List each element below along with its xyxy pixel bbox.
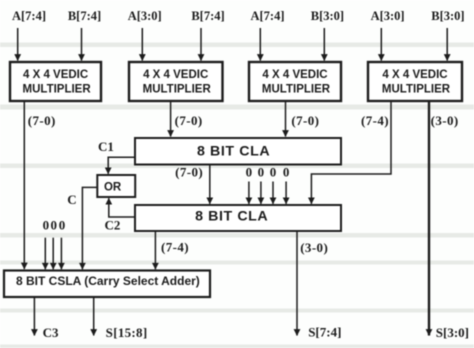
svg-text:S[15:8]: S[15:8] xyxy=(106,325,148,340)
svg-text:4 X 4 VEDIC: 4 X 4 VEDIC xyxy=(143,69,208,81)
svg-text:4 X 4 VEDIC: 4 X 4 VEDIC xyxy=(23,69,88,81)
svg-text:(3-0): (3-0) xyxy=(431,113,459,128)
svg-text:B[7:4]: B[7:4] xyxy=(68,9,101,23)
svg-text:A[3:0]: A[3:0] xyxy=(128,9,162,23)
svg-text:8 BIT CSLA (Carry Select Adder: 8 BIT CSLA (Carry Select Adder) xyxy=(16,274,200,288)
svg-text:0: 0 xyxy=(246,164,253,179)
svg-text:A[7:4]: A[7:4] xyxy=(250,9,284,23)
svg-text:0: 0 xyxy=(258,164,265,179)
svg-text:0: 0 xyxy=(59,218,66,233)
svg-text:C3: C3 xyxy=(43,325,59,340)
svg-text:C1: C1 xyxy=(98,139,114,154)
svg-text:(7-0): (7-0) xyxy=(28,113,56,128)
svg-text:(7-0): (7-0) xyxy=(291,113,319,128)
svg-text:0: 0 xyxy=(43,218,50,233)
svg-text:0: 0 xyxy=(283,164,290,179)
svg-text:(7-4): (7-4) xyxy=(361,113,389,128)
svg-text:0: 0 xyxy=(270,164,277,179)
svg-text:A[7:4]: A[7:4] xyxy=(12,9,46,23)
svg-text:8 BIT CLA: 8 BIT CLA xyxy=(195,209,268,225)
svg-text:0: 0 xyxy=(50,218,57,233)
svg-text:MULTIPLIER: MULTIPLIER xyxy=(382,84,451,96)
svg-text:(7-4): (7-4) xyxy=(161,240,189,255)
svg-text:(3-0): (3-0) xyxy=(300,240,328,255)
svg-text:OR: OR xyxy=(104,182,122,194)
svg-text:4 X 4 VEDIC: 4 X 4 VEDIC xyxy=(262,69,327,81)
svg-text:(7-0): (7-0) xyxy=(175,113,203,128)
svg-text:(7-0): (7-0) xyxy=(175,164,203,179)
svg-text:B[3:0]: B[3:0] xyxy=(311,9,344,23)
svg-text:B[7:4]: B[7:4] xyxy=(191,9,224,23)
svg-text:MULTIPLIER: MULTIPLIER xyxy=(143,84,212,96)
svg-text:8 BIT CLA: 8 BIT CLA xyxy=(197,144,270,160)
svg-text:C: C xyxy=(67,192,76,207)
svg-text:MULTIPLIER: MULTIPLIER xyxy=(262,84,331,96)
svg-text:S[3:0]: S[3:0] xyxy=(436,325,469,340)
svg-text:S[7:4]: S[7:4] xyxy=(308,325,341,340)
svg-text:MULTIPLIER: MULTIPLIER xyxy=(23,84,92,96)
svg-text:B[3:0]: B[3:0] xyxy=(431,9,464,23)
svg-text:4 X 4 VEDIC: 4 X 4 VEDIC xyxy=(382,69,447,81)
svg-text:A[3:0]: A[3:0] xyxy=(371,9,405,23)
svg-text:C2: C2 xyxy=(104,218,120,233)
